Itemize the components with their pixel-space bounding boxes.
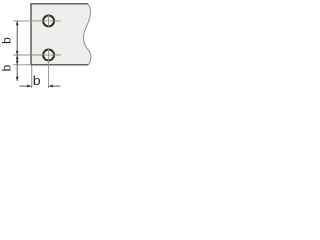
arrow up below bottom hole line xyxy=(16,55,19,59)
hole bottom xyxy=(43,50,54,61)
arrow up at top hole line xyxy=(16,21,19,25)
dim line bottom left segment xyxy=(20,85,32,87)
centerline V bottom hole + extension xyxy=(48,48,50,88)
svg-text:b: b xyxy=(0,37,13,44)
svg-text:b: b xyxy=(0,64,14,71)
centerline V top hole xyxy=(48,14,50,28)
arrow down at bottom hole line xyxy=(16,51,19,55)
ext plate left edge down xyxy=(31,65,33,88)
arrow down hanging xyxy=(16,77,19,81)
dim line left vertical xyxy=(16,21,18,81)
centerline H top hole xyxy=(13,20,61,22)
hole top xyxy=(43,15,54,26)
arrow right at plate edge xyxy=(27,85,31,88)
arrow left at hole center line xyxy=(49,85,53,88)
arrow down at plate bottom line xyxy=(16,61,19,65)
svg-text:b: b xyxy=(33,73,41,88)
plate edges xyxy=(31,4,88,65)
centerline H bottom hole xyxy=(13,54,61,56)
break line xyxy=(84,4,91,65)
plate xyxy=(31,4,91,65)
dim line bottom right segment xyxy=(49,85,61,87)
ext plate bottom left xyxy=(13,64,31,66)
